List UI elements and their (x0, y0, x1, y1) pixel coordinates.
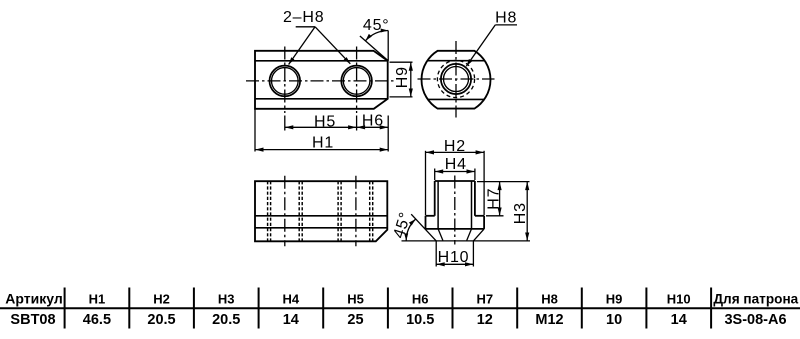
end view bottom chamfer line (428, 98, 485, 100)
bottom chamfer edge line (255, 98, 388, 100)
hole 1 (tapped hole, front view) (270, 66, 301, 97)
dimension H6 (357, 112, 389, 129)
flange sides (425, 216, 427, 229)
dimension H3 (overall height) (512, 182, 529, 241)
svg-text:H9: H9 (394, 66, 411, 88)
top chamfer edge line (255, 60, 388, 62)
vertical centerline hole 1 (284, 47, 286, 114)
inner chamfer edges (438, 229, 443, 241)
outer side walls (434, 181, 436, 216)
dimension H1 (overall length) (255, 110, 388, 152)
svg-text:H2: H2 (153, 292, 170, 307)
table header row (5, 291, 798, 307)
end view (left side view of nut) (422, 51, 491, 109)
front view of T-nut block (255, 51, 388, 109)
end view top chamfer line (427, 60, 485, 62)
svg-text:10: 10 (606, 312, 622, 328)
dimension H5 (hole spacing) (285, 113, 357, 130)
horizontal centerline front view (246, 80, 397, 82)
svg-text:20.5: 20.5 (147, 312, 175, 328)
top edge (435, 180, 475, 182)
dimension H9 (right of front view) (390, 62, 413, 97)
svg-text:H7: H7 (486, 188, 503, 210)
hidden hole lines bottom view (268, 181, 373, 241)
flange top (426, 215, 435, 217)
svg-text:2–H8: 2–H8 (283, 9, 324, 26)
section view centerline (454, 176, 456, 245)
svg-text:H1: H1 (89, 292, 106, 307)
svg-text:45°: 45° (363, 17, 390, 34)
svg-text:46.5: 46.5 (83, 312, 111, 328)
svg-text:25: 25 (347, 312, 363, 328)
end view centerlines (455, 41, 457, 118)
right outer chamfer (473, 229, 484, 241)
tapped hole end view (437, 60, 474, 97)
svg-text:M12: M12 (535, 312, 563, 328)
svg-text:H4: H4 (445, 156, 467, 173)
svg-text:20.5: 20.5 (212, 312, 240, 328)
svg-text:H5: H5 (347, 292, 364, 307)
svg-text:SBT08: SBT08 (10, 312, 55, 328)
svg-text:H6: H6 (412, 292, 429, 307)
45 degree chamfer callout (bottom) (391, 210, 530, 241)
table data row (10, 312, 786, 328)
svg-text:H2: H2 (444, 138, 466, 155)
svg-text:H3: H3 (512, 202, 529, 224)
svg-text:H9: H9 (606, 292, 623, 307)
section view of T-nut profile (426, 181, 485, 241)
bottom view centerline hole 2 (355, 176, 357, 247)
svg-text:H3: H3 (218, 292, 235, 307)
hole 2 (tapped hole, front view) (341, 66, 372, 97)
label 2-H8 with leaders to both holes (283, 9, 350, 65)
svg-text:14: 14 (671, 312, 687, 328)
45 degree chamfer callout (top) (360, 17, 390, 61)
slot edge line upper (255, 215, 387, 217)
svg-text:10.5: 10.5 (406, 312, 434, 328)
bore walls (437, 181, 439, 229)
svg-text:H8: H8 (495, 10, 517, 27)
svg-text:H7: H7 (476, 292, 493, 307)
dimension H2 (flange width) (426, 138, 485, 215)
label H8 with leader (466, 10, 517, 66)
svg-text:14: 14 (283, 312, 299, 328)
bottom view of block (255, 181, 387, 241)
vertical centerline hole 2 (356, 47, 358, 114)
svg-text:H8: H8 (541, 292, 558, 307)
svg-text:H5: H5 (314, 113, 336, 130)
bottom view centerline hole 1 (284, 176, 286, 247)
dimension H10 (bottom face width) (436, 242, 473, 267)
flange bottom (426, 228, 485, 230)
table grid (0, 288, 800, 329)
svg-text:3S-08-A6: 3S-08-A6 (724, 312, 786, 328)
svg-text:Артикул: Артикул (5, 291, 62, 307)
slot edge line lower (255, 227, 387, 229)
svg-text:H1: H1 (312, 135, 334, 152)
svg-text:Для патрона: Для патрона (713, 292, 798, 307)
svg-text:H4: H4 (282, 292, 299, 307)
svg-text:H10: H10 (438, 249, 470, 266)
svg-text:H6: H6 (362, 112, 384, 129)
dimension H4 (body width) (435, 156, 475, 180)
dimension H7 (body height) (477, 182, 530, 216)
svg-text:12: 12 (477, 312, 493, 328)
svg-text:H10: H10 (667, 292, 691, 307)
